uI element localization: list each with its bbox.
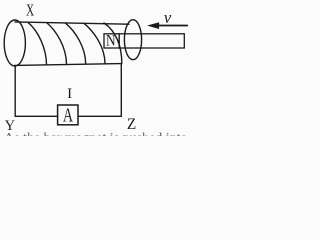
solenoid bottom wire (15, 64, 122, 66)
wire right vertical (Z corner up to solenoid) (120, 64, 122, 117)
wire bottom left (Y corner to ammeter) (15, 115, 57, 117)
coil turn 4 (84, 23, 105, 64)
svg-text:A: A (63, 105, 73, 126)
coil turn 3 (65, 23, 85, 64)
solenoid right end ellipse (124, 20, 141, 60)
svg-text:I: I (67, 86, 72, 102)
bar magnet body (104, 34, 184, 48)
bar magnet N-pole divider (118, 34, 120, 48)
svg-text:N: N (106, 33, 116, 50)
velocity arrow head (148, 23, 159, 29)
svg-text:v: v (164, 8, 172, 27)
coil turn 1 (28, 22, 47, 65)
svg-text:As the bar magnet is pushed in: As the bar magnet is pushed into the coi… (4, 131, 189, 136)
solenoid top wire (15, 22, 129, 24)
svg-text:X: X (26, 1, 34, 20)
wire bottom right (ammeter to Z corner) (78, 115, 121, 117)
wire left vertical (X lead down to Y corner) (14, 66, 16, 117)
ammeter A1 box (58, 105, 78, 125)
solenoid left end ellipse (4, 20, 25, 66)
velocity arrow shaft (157, 25, 187, 27)
coil turn 5 (104, 23, 122, 63)
coil turn 2 (47, 23, 67, 65)
